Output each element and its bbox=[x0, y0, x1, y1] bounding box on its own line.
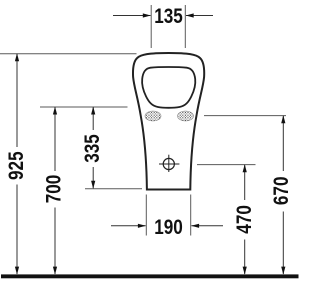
svg-text:335: 335 bbox=[81, 134, 104, 163]
svg-text:135: 135 bbox=[154, 5, 183, 28]
svg-text:700: 700 bbox=[42, 175, 65, 204]
svg-text:470: 470 bbox=[233, 205, 256, 234]
svg-text:190: 190 bbox=[154, 216, 183, 239]
svg-text:925: 925 bbox=[5, 151, 28, 180]
svg-text:670: 670 bbox=[270, 177, 293, 206]
